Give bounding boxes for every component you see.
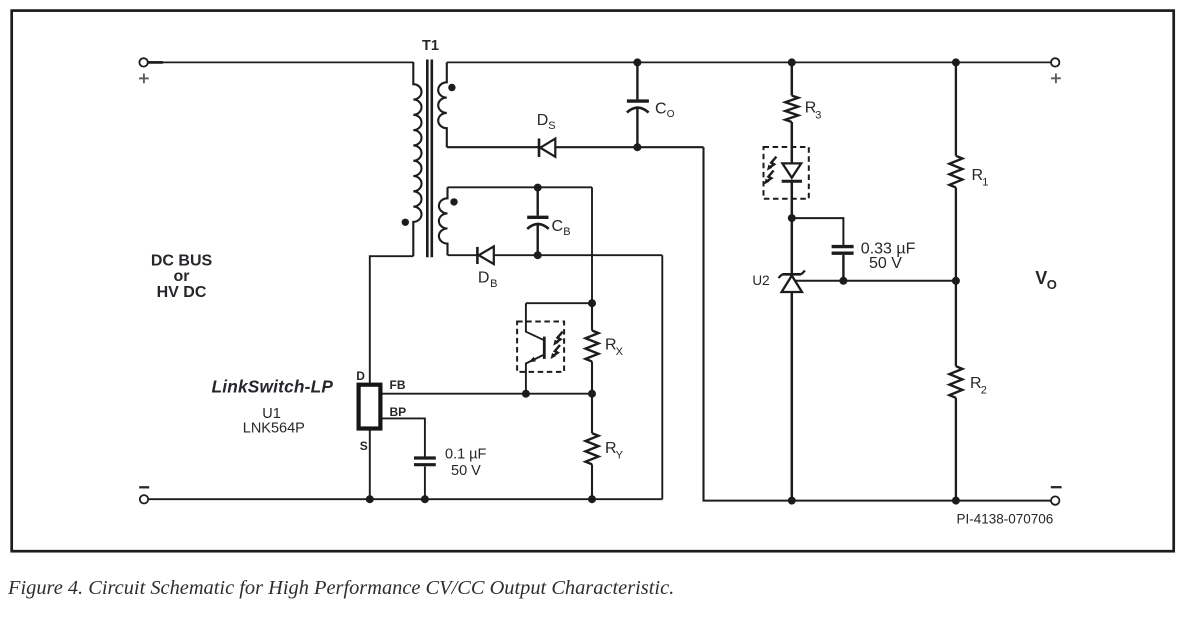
wire: opto LED cathode node to 0.33uF [792,218,844,245]
svg-text:Figure 4. Circuit Schematic fo: Figure 4. Circuit Schematic for High Per… [7,577,674,599]
wire: output return vertical [702,147,704,500]
junction: R1 top [952,58,960,66]
junction: LED cathode node [788,214,796,222]
label RY [605,440,624,462]
junction: U2 anode on output return [788,497,796,505]
capacitor 0.1 uF (bypass) [414,458,436,499]
svg-text:C: C [552,218,564,235]
shunt regulator U2 (TL431) [778,218,805,501]
wire: FB net [383,393,593,395]
transformer T1 core [427,60,432,258]
svg-text:PI-4138-070706: PI-4138-070706 [956,512,1053,527]
svg-text:50 V: 50 V [869,255,902,272]
terminal: DC input + [139,58,163,83]
junction: R1/R2 divider node [952,277,960,285]
wire: output + rail (secondary dot to output terminal) [447,61,1051,63]
junction: Rx top node [588,299,596,307]
svg-text:X: X [616,346,624,358]
label R2 [970,375,987,397]
optocoupler phototransistor side [517,303,564,394]
transformer T1 bias winding [439,187,448,255]
svg-text:S: S [360,439,368,453]
label CB [552,218,571,238]
svg-text:DC BUS: DC BUS [151,253,213,270]
transformer T1 primary polarity dot [402,219,409,226]
transformer T1 label [422,38,439,54]
svg-text:FB: FB [390,378,406,392]
wire: bias return through DB to CB bottom and down [448,254,663,256]
resistor R1 [949,62,962,280]
junction: R3 top [788,58,796,66]
svg-text:LNK564P: LNK564P [243,420,305,436]
transformer T1 secondary winding [438,62,447,147]
svg-text:D: D [537,112,549,129]
junction: CB top [534,184,542,192]
capacitor CB (bias) [527,188,549,256]
svg-text:Y: Y [616,450,624,462]
junction: CB bottom [534,251,542,259]
label R3 [805,100,822,122]
svg-text:HV DC: HV DC [157,284,207,301]
junction: CO bottom [633,143,641,151]
svg-text:O: O [667,109,675,120]
wire: U1 source to ground rail [369,431,371,500]
transformer T1 primary winding [413,62,421,256]
wire: CB top corner down to Rx node [591,187,593,303]
svg-text:T1: T1 [422,38,439,54]
svg-text:2: 2 [981,385,987,397]
label DC BUS or HV DC [151,253,213,301]
diode DS (secondary rectifier) [539,139,555,158]
wire: bias winding top to CB and feedback divider [448,186,593,188]
junction: bypass cap on ground rail [421,495,429,503]
svg-text:0.1 µF: 0.1 µF [445,447,487,463]
junction: 0.33uF bottom on reference line [839,277,847,285]
terminal: DC input - [139,487,149,503]
terminal: output - [1051,487,1062,505]
wire: BP pin to bypass capacitor [383,418,425,456]
transformer T1 bias polarity dot [450,198,457,205]
junction: CO top [633,58,641,66]
wire: opto collector to Rx top node [526,302,592,304]
label 0.33 uF 50 V [861,241,916,272]
junction: Rx/Ry node on FB line [588,390,596,398]
diode DB (bias rectifier) [477,246,493,264]
svg-text:C: C [655,101,667,118]
resistor R3 [785,62,798,163]
svg-text:LinkSwitch-LP: LinkSwitch-LP [211,377,333,397]
label R1 [972,167,989,189]
junction: R2 on output return [952,497,960,505]
svg-text:50 V: 50 V [451,463,481,479]
svg-text:U2: U2 [752,273,769,288]
label CO [655,101,675,120]
svg-text:B: B [490,278,497,290]
label LinkSwitch-LP U1 LNK564P [211,377,333,437]
wire: primary ground rail [149,498,663,500]
svg-text:B: B [563,226,570,238]
transformer T1 secondary polarity dot [448,84,455,91]
wire: secondary return through Ds to node [447,146,704,148]
wire: input + rail to transformer primary [162,61,413,63]
svg-text:BP: BP [390,405,407,419]
svg-text:D: D [356,369,365,383]
svg-text:3: 3 [815,109,821,121]
optocoupler LED side [764,147,809,218]
capacitor CO (output) [627,62,649,147]
junction: Ry on ground rail [588,495,596,503]
junction: source on ground rail [366,495,374,503]
label DB [478,270,498,291]
svg-text:or: or [174,268,190,285]
label VO [1035,268,1057,292]
resistor RX [586,303,599,394]
wire: U1 drain to primary winding [370,256,414,384]
svg-text:V: V [1035,268,1047,288]
U1 pin labels [356,369,406,453]
svg-text:S: S [548,120,555,132]
label 0.1 uF 50 V [445,447,487,479]
wire: U2 reference to R1/R2 divider [795,280,956,282]
svg-text:D: D [478,270,490,287]
wire: bias return vertical to primary ground [661,255,663,499]
svg-text:O: O [1047,277,1057,292]
label DS [537,112,556,132]
capacitor 0.33 uF [832,247,854,281]
IC U1 LNK564P body [359,385,381,429]
label U2 [752,273,769,288]
terminal: output + [1051,58,1061,83]
junction: emitter on FB line [522,390,530,398]
label PI-4138-070706 [956,512,1053,527]
resistor R2 [949,281,962,501]
label RX [605,336,624,358]
wire: secondary bottom rail [703,500,1052,502]
svg-text:1: 1 [982,177,988,189]
resistor RY [586,394,599,500]
